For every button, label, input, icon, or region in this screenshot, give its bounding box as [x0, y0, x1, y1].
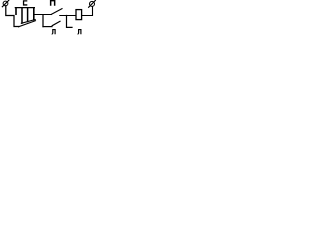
wire right horizontal	[60, 15, 76, 17]
spring contact diagonal	[51, 9, 62, 15]
terminal left	[3, 1, 8, 6]
wire resistor to terminal	[82, 7, 93, 16]
key post vertical	[42, 15, 44, 27]
terminal left slash	[2, 0, 9, 7]
label L1	[51, 29, 55, 34]
armature upper edge	[21, 20, 35, 24]
core leg 4	[33, 8, 35, 20]
branch wire down	[67, 16, 73, 28]
key lever	[52, 21, 60, 25]
label P	[50, 0, 56, 6]
label C	[23, 0, 27, 5]
terminal right	[90, 1, 95, 6]
core leg 3	[27, 8, 29, 22]
resistor body	[76, 10, 82, 20]
spring wire horizontal	[34, 14, 51, 16]
core leg 2	[21, 8, 23, 23]
terminal right slash	[89, 0, 96, 7]
wire left: stem down, right, down to bottom	[6, 6, 19, 27]
label L2	[77, 29, 81, 34]
core leg 1	[15, 8, 17, 14]
key base horizontal	[43, 26, 52, 28]
armature lower edge	[19, 21, 36, 27]
core top bar	[15, 7, 34, 9]
